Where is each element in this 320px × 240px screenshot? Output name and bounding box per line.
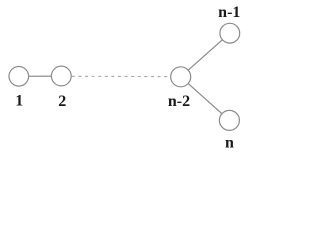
wire dashed edge 2 to n-2 [72, 75, 171, 77]
node 1 [9, 67, 29, 87]
wire edge n-2 to n [181, 77, 230, 121]
node n [219, 110, 239, 130]
node 2 [51, 66, 71, 86]
wire edge n-2 to n-1 [181, 33, 230, 77]
svg-text:2: 2 [58, 93, 66, 110]
svg-text:n: n [225, 135, 234, 152]
node n-1 [220, 23, 240, 43]
svg-text:n-1: n-1 [218, 4, 240, 21]
node n-2 [171, 67, 191, 87]
wire edge 1-2 [19, 75, 62, 77]
svg-text:1: 1 [15, 93, 23, 110]
svg-text:n-2: n-2 [168, 93, 190, 110]
